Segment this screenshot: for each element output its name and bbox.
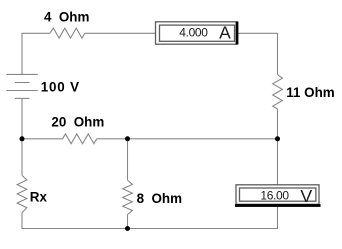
wire left vertical battery to middle junction <box>21 98 23 138</box>
resistor R 20 Ohm zigzag <box>63 134 97 144</box>
wire voltmeter to bottom-right corner <box>128 207 278 229</box>
wire 20 Ohm to center junction <box>97 138 128 140</box>
svg-text:V: V <box>300 186 312 206</box>
wire ammeter to top-right corner <box>239 33 278 74</box>
node junction dot bottom <box>125 226 130 231</box>
node junction dot right-middle <box>275 136 280 141</box>
wire right vertical down to voltmeter <box>277 139 279 185</box>
voltmeter M2 outer box <box>236 185 319 205</box>
resistor R 4 Ohm zigzag <box>50 28 85 38</box>
voltmeter M2 inner box <box>240 188 316 201</box>
svg-text:8 Ohm: 8 Ohm <box>137 191 182 206</box>
wire left vertical junction to Rx <box>21 139 23 176</box>
node junction dot center-middle <box>125 136 130 141</box>
svg-text:16.00: 16.00 <box>260 188 289 202</box>
wire center junction to right junction <box>128 138 278 140</box>
svg-text:20 Ohm: 20 Ohm <box>51 115 104 130</box>
wire 8 Ohm branch lower <box>127 215 129 229</box>
ammeter M1 inner box <box>160 25 235 41</box>
svg-text:Rx: Rx <box>30 190 48 205</box>
resistor R 11 Ohm zigzag <box>273 75 283 109</box>
svg-text:100 V: 100 V <box>41 80 79 95</box>
wire 11 Ohm to middle-right junction <box>277 109 279 139</box>
ammeter M1 outer box <box>156 22 238 44</box>
svg-text:4.000: 4.000 <box>179 25 208 39</box>
node junction dot left-middle <box>20 136 25 141</box>
wire from 4 Ohm to ammeter <box>85 32 156 34</box>
resistor R 8 Ohm zigzag <box>123 180 133 214</box>
battery B1 100 V <box>6 74 38 98</box>
resistor Rx zigzag <box>17 175 27 212</box>
wire top-left horizontal from battery corner to 4 Ohm resistor <box>22 33 50 74</box>
svg-text:A: A <box>219 23 231 43</box>
svg-text:4 Ohm: 4 Ohm <box>44 10 89 25</box>
wire bottom from 8 Ohm junction to bottom-left corner <box>22 213 128 229</box>
wire middle-left horizontal to 20 Ohm <box>22 138 63 140</box>
voltmeter M2 bottom thick bar <box>235 204 321 207</box>
svg-text:11 Ohm: 11 Ohm <box>286 85 334 100</box>
wire 8 Ohm branch upper <box>127 139 129 180</box>
ammeter M1 right thick bar <box>236 22 239 45</box>
